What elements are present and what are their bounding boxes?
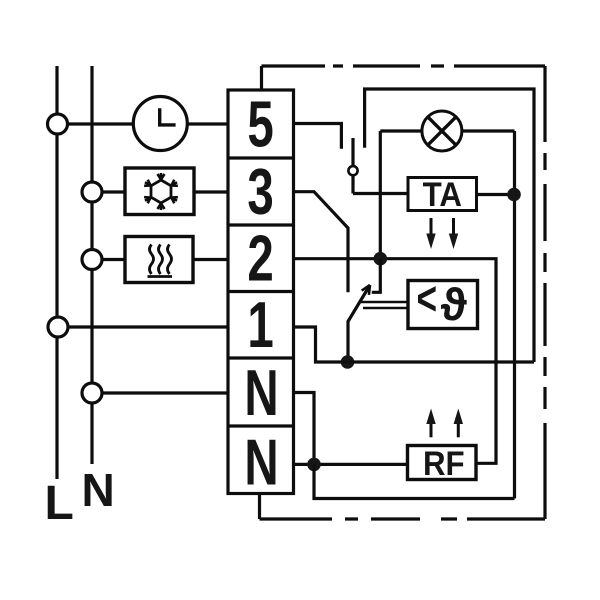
wire terminal N2 to RF box [294, 463, 408, 466]
svg-text:N: N [82, 464, 115, 516]
terminal circle on N (row 3) [82, 182, 102, 202]
enclosure border left top stub [260, 66, 263, 90]
wire lamp to N rail [462, 129, 515, 132]
cooling box [125, 168, 194, 215]
wire clock to terminal 5 [187, 122, 228, 125]
wire cooling box to terminal 3 [194, 190, 228, 193]
heating symbol (3 wavy lines over bar) [148, 245, 173, 277]
terminal cell divider 1/N [228, 356, 294, 359]
wire terminal 3 to thermostat contact (diagonal) [294, 192, 349, 293]
terminal cell divider 5/3 [228, 156, 294, 159]
clock symbol (time switch) [133, 97, 187, 151]
wire row5 left: L circle to clock [68, 122, 134, 125]
terminal block outline [228, 90, 294, 494]
svg-text:3: 3 [247, 156, 273, 229]
enclosure border top (dash-dot) [262, 64, 546, 67]
wire pivot down to TA line [351, 175, 354, 193]
lamp vertical wire [379, 131, 382, 259]
wire heating box to terminal 2 [193, 258, 228, 261]
enclosure border right (dash-dot) [543, 66, 546, 519]
wire terminal 1 down to node line [294, 327, 348, 362]
wire terminal 2 across to right and down to RF [294, 259, 497, 464]
enclosure border bottom (dash-dot) [260, 517, 546, 520]
wire N supply line [90, 66, 93, 464]
svg-text:ϑ: ϑ [441, 279, 468, 330]
terminal cell divider 3/2 [228, 223, 294, 226]
wire rowN: N circle to terminal N [102, 391, 228, 394]
terminal circle on L (row 1) [48, 317, 68, 337]
svg-text:2: 2 [247, 222, 273, 295]
thermostat switch lever with arrow [348, 285, 370, 362]
thermostat box [408, 281, 478, 329]
wire to lamp [380, 129, 421, 132]
svg-text:1: 1 [247, 289, 273, 362]
N rail vertical [513, 131, 516, 499]
lamp symbol [422, 111, 462, 151]
N return wire bottom [314, 464, 515, 498]
wire terminal N1 down to RF node [294, 393, 315, 465]
terminal circle on N (row N) [82, 383, 102, 403]
wire N circle to cooling box [102, 190, 125, 193]
node line to hook [348, 360, 535, 363]
switch contact hook from junction [372, 259, 381, 293]
junction dot node line [341, 355, 355, 369]
enclosure border left bottom stub [258, 494, 261, 520]
terminal cell divider N/N [228, 424, 294, 427]
wire row1: L circle to terminal 1 [68, 325, 228, 328]
RF arrows up [431, 419, 458, 437]
wire N circle to heating box [102, 258, 125, 261]
RF box [408, 446, 477, 480]
terminal cell divider 2/1 [228, 290, 294, 293]
wire to TA box [353, 192, 408, 195]
svg-text:L: L [45, 477, 74, 530]
clock switch pivot [348, 166, 357, 175]
svg-text:N: N [244, 426, 278, 499]
terminal circle on L (row 5) [48, 114, 68, 134]
svg-text:TA: TA [423, 175, 462, 214]
wire TA to N rail [477, 193, 515, 196]
wire L supply line [55, 66, 58, 479]
inner circuit hook: switch contact B up over to right and down to node line [365, 89, 534, 362]
svg-text:N: N [244, 357, 278, 430]
svg-text:RF: RF [423, 444, 465, 483]
snowflake symbol [151, 180, 171, 203]
junction dot terminal2/lamp/switch [374, 252, 388, 266]
junction dot RF node [307, 458, 321, 472]
heating box [125, 237, 193, 283]
TA arrows down [431, 218, 454, 238]
clock switch lever [351, 138, 354, 166]
wire terminal 5 to switch contact A [294, 124, 342, 149]
svg-text:5: 5 [247, 88, 273, 161]
terminal circle on N (row 2) [82, 250, 102, 270]
svg-text:<: < [417, 272, 438, 325]
junction dot TA/N rail [507, 188, 521, 202]
thermostat mechanical link [361, 302, 408, 308]
TA box [408, 178, 477, 211]
